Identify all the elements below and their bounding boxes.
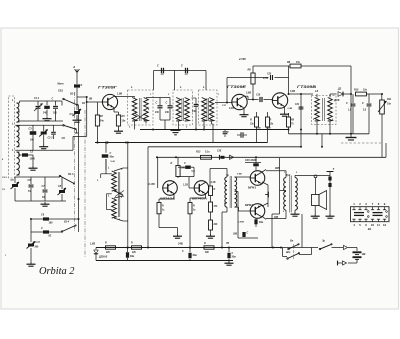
svg-text:R13: R13 xyxy=(196,151,201,154)
svg-text:24В: 24В xyxy=(177,242,183,246)
svg-text:C25: C25 xyxy=(217,151,222,153)
svg-text:ГТ309Г: ГТ309Г xyxy=(98,86,118,90)
svg-text:0,2В: 0,2В xyxy=(229,108,234,110)
svg-text:C18: C18 xyxy=(256,95,261,97)
svg-text:Т: Т xyxy=(333,167,335,171)
svg-text:0,2В: 0,2В xyxy=(266,127,271,129)
svg-text:C1-5: C1-5 xyxy=(35,241,41,244)
svg-text:В1: В1 xyxy=(368,227,372,231)
svg-text:C: C xyxy=(41,227,43,230)
svg-text:7В: 7В xyxy=(226,242,229,245)
svg-text:C: C xyxy=(227,131,229,134)
svg-text:R: R xyxy=(171,162,173,165)
svg-text:R11: R11 xyxy=(387,98,392,101)
svg-text:МП41: МП41 xyxy=(248,186,256,190)
svg-text:Orbita 2: Orbita 2 xyxy=(39,266,75,277)
svg-text:Д2: Д2 xyxy=(337,88,342,91)
svg-text:9В: 9В xyxy=(362,252,365,256)
svg-text:А: А xyxy=(72,65,75,69)
svg-text:180: 180 xyxy=(49,222,54,225)
svg-text:C2-3: C2-3 xyxy=(2,177,8,179)
svg-text:0В: 0В xyxy=(89,98,92,101)
svg-text:33м: 33м xyxy=(130,256,135,258)
svg-text:0,2В: 0,2В xyxy=(256,127,261,129)
svg-text:0,13В: 0,13В xyxy=(149,184,155,186)
svg-text:C: C xyxy=(166,102,168,105)
svg-text:к3 5М: к3 5М xyxy=(239,58,247,61)
svg-text:10: 10 xyxy=(371,223,375,227)
svg-text:C: C xyxy=(346,102,348,105)
svg-text:В1-4: В1-4 xyxy=(64,221,70,224)
svg-text:L: L xyxy=(131,85,133,89)
svg-text:C2-2: C2-2 xyxy=(48,138,54,140)
svg-text:Тр2: Тр2 xyxy=(286,174,291,177)
svg-text:30м: 30м xyxy=(193,255,198,257)
svg-text:1000: 1000 xyxy=(30,158,36,161)
svg-text:Д226-В: Д226-В xyxy=(98,256,108,259)
svg-text:3,6В: 3,6В xyxy=(290,90,295,93)
svg-text:СВ1: СВ1 xyxy=(58,90,64,93)
svg-text:R: R xyxy=(270,119,272,122)
svg-text:С20: С20 xyxy=(267,74,272,76)
svg-text:L: L xyxy=(203,85,205,89)
svg-text:C: C xyxy=(52,98,54,101)
svg-text:1,9В: 1,9В xyxy=(117,93,122,96)
svg-text:C: C xyxy=(362,102,364,105)
svg-text:11: 11 xyxy=(377,223,380,227)
svg-text:C: C xyxy=(181,65,183,68)
svg-text:С29 100М: С29 100М xyxy=(245,159,257,162)
svg-text:90В: 90В xyxy=(275,167,280,170)
svg-text:0,07В: 0,07В xyxy=(238,222,244,224)
svg-text:C: C xyxy=(157,65,159,68)
svg-text:В1-1: В1-1 xyxy=(70,93,76,96)
svg-text:C: C xyxy=(110,152,112,155)
svg-text:Магн: Магн xyxy=(58,83,65,86)
svg-text:C1-1: C1-1 xyxy=(34,97,40,100)
svg-text:12: 12 xyxy=(383,223,387,227)
svg-text:R10: R10 xyxy=(354,89,359,92)
svg-text:Шт: Шт xyxy=(286,252,290,254)
svg-text:ГТ309В: ГТ309В xyxy=(297,85,316,89)
svg-text:C: C xyxy=(156,102,158,105)
svg-text:ГТ309Е: ГТ309Е xyxy=(227,85,247,89)
svg-text:2,8В: 2,8В xyxy=(245,92,251,95)
svg-text:30м: 30м xyxy=(110,157,115,159)
svg-text:МП40А: МП40А xyxy=(192,197,207,201)
svg-text:30м: 30м xyxy=(259,222,264,224)
svg-text:МП42: МП42 xyxy=(245,203,253,207)
svg-text:МП40А: МП40А xyxy=(160,197,175,201)
svg-text:C21: C21 xyxy=(295,104,300,106)
svg-text:Д16: Д16 xyxy=(333,98,340,102)
svg-text:30м: 30м xyxy=(232,257,237,259)
svg-text:C: C xyxy=(184,162,186,165)
svg-text:5-20: 5-20 xyxy=(111,161,116,163)
svg-text:5,1к: 5,1к xyxy=(205,151,210,154)
svg-text:L: L xyxy=(180,85,182,89)
svg-text:Вн: Вн xyxy=(290,240,294,243)
svg-text:30В: 30В xyxy=(274,217,279,219)
svg-text:1,2В: 1,2В xyxy=(183,185,188,187)
svg-text:1,6В: 1,6В xyxy=(90,243,95,246)
svg-text:В1-3: В1-3 xyxy=(68,173,74,176)
svg-text:D: D xyxy=(81,84,83,87)
svg-text:4,4В: 4,4В xyxy=(210,181,216,184)
svg-text:0,9В: 0,9В xyxy=(288,108,293,110)
svg-text:0,9В: 0,9В xyxy=(237,174,242,176)
svg-text:R: R xyxy=(250,119,252,122)
svg-text:L6: L6 xyxy=(315,89,319,93)
svg-text:30В: 30В xyxy=(233,234,238,236)
